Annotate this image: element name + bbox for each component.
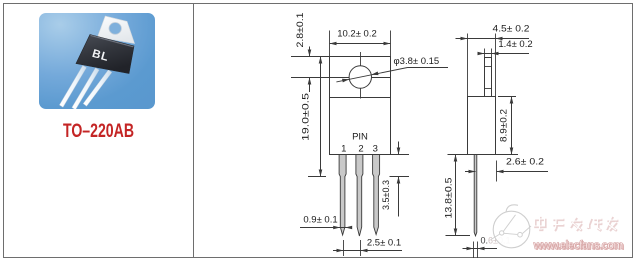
svg-text:0.9± 0.1: 0.9± 0.1 [303, 215, 337, 226]
2.6 dimension line right [497, 171, 549, 173]
13.8 bottom stub [446, 235, 471, 237]
dim text 19.0 [301, 93, 312, 141]
dim text 2.8 [295, 13, 306, 48]
tab hole bottom edge [485, 88, 492, 90]
watermark logo slash line [503, 215, 516, 232]
package photo icon (blue tile) [39, 13, 155, 109]
body bottom right stub [391, 154, 410, 156]
svg-text:3.5±0.3: 3.5±0.3 [381, 180, 391, 210]
svg-text:4.5± 0.2: 4.5± 0.2 [493, 24, 530, 35]
2.5 dimension line [333, 250, 402, 252]
watermark CJK characters (stylized) [535, 216, 619, 231]
2.6 dimension line left [465, 171, 476, 173]
svg-text:PIN: PIN [352, 132, 368, 143]
watermark url text [533, 240, 625, 253]
front leg 1 [339, 155, 346, 236]
hole diameter leader line [336, 68, 407, 82]
svg-text:1.4± 0.2: 1.4± 0.2 [498, 39, 532, 50]
watermark logo short line [523, 226, 532, 234]
svg-text:3: 3 [373, 144, 378, 155]
tab/body boundary line [330, 97, 391, 99]
2.5 arrows [337, 249, 344, 253]
1.4 arrows [478, 52, 485, 56]
leg shoulder stub [390, 176, 410, 178]
BL marking [91, 48, 111, 64]
2.8 arrows [308, 50, 312, 57]
0.9 dimension line [300, 227, 352, 229]
transistor leg 3 [83, 70, 112, 106]
2.6 extension line [496, 161, 498, 182]
19.0 arrows [319, 57, 323, 64]
8.9 top stub [498, 96, 516, 98]
2.5 extension lines [343, 240, 345, 256]
watermark logo circle [491, 205, 531, 248]
transistor metal tab [98, 16, 135, 43]
front view package outline [330, 57, 391, 155]
19.0 dimension line [320, 57, 322, 177]
3.5 arrows [397, 148, 401, 155]
transistor leg 1 [59, 65, 86, 107]
transistor leg 2 [72, 68, 99, 110]
0.6 arrows [467, 247, 474, 251]
3.5 upper arrow line [398, 142, 400, 155]
top edge left stub [291, 56, 330, 58]
0.9 arrows [333, 226, 340, 230]
dim text 8.9 [498, 109, 508, 142]
svg-text:13.8±0.5: 13.8±0.5 [444, 178, 454, 219]
13.8 arrows [454, 155, 458, 162]
svg-text:TO–220AB: TO–220AB [63, 120, 134, 142]
0.6 extension lines [473, 242, 475, 259]
svg-text:www.elecfans.com: www.elecfans.com [533, 240, 624, 252]
tab hole top edge [485, 66, 492, 68]
watermark logo tail [506, 205, 518, 213]
3.5 lower dimension line [398, 177, 400, 217]
front leg 2 [356, 155, 363, 237]
mounting hole [349, 66, 371, 88]
side view tab edge extensions [484, 49, 486, 58]
13.8 dimension line [455, 155, 457, 236]
tab mounting hole [109, 23, 121, 35]
2.8 dimension lines [309, 47, 311, 57]
0.6 dimension line [463, 248, 498, 250]
transistor body [76, 35, 134, 74]
svg-text:2.8±0.1: 2.8±0.1 [295, 13, 306, 48]
8.9 dimension line [511, 97, 513, 155]
side view front face extension [467, 34, 469, 97]
19.0 bottom stub [308, 176, 326, 178]
side view leg [474, 155, 477, 236]
8.9 arrows [510, 97, 514, 104]
side view tab [485, 58, 492, 97]
hole horizontal centerline [291, 77, 390, 79]
svg-text:8.9±0.2: 8.9±0.2 [498, 109, 508, 142]
panel divider [193, 3, 194, 258]
10.2 arrows [330, 42, 337, 46]
hole diameter arrows [342, 79, 349, 83]
body bevel highlight [91, 35, 134, 46]
dim text 13.8 [444, 178, 454, 219]
svg-text:10.2± 0.2: 10.2± 0.2 [337, 29, 377, 40]
hole vertical centerline [360, 52, 362, 99]
body bottom left stub [448, 154, 468, 156]
2.6 arrows [469, 170, 476, 174]
watermark logo dot B [518, 232, 523, 237]
dim text 3.5 [381, 180, 391, 210]
4.5 dimension line [456, 38, 530, 40]
svg-text:φ3.8± 0.15: φ3.8± 0.15 [394, 56, 440, 67]
watermark logo dot A [500, 231, 504, 235]
svg-text:2.6± 0.2: 2.6± 0.2 [506, 157, 544, 168]
svg-text:1: 1 [341, 144, 346, 155]
1.4 dimension line [479, 53, 530, 55]
svg-text:2: 2 [358, 144, 363, 155]
10.2 extension lines [329, 31, 331, 57]
8.9 bottom stub [496, 154, 519, 156]
4.5 arrows [461, 37, 468, 41]
svg-text:19.0±0.5: 19.0±0.5 [301, 93, 312, 141]
side view tab back extension [495, 34, 497, 97]
svg-text:2.5± 0.1: 2.5± 0.1 [367, 238, 401, 249]
front leg 3 [373, 155, 380, 235]
side view body [468, 97, 496, 155]
10.2 dimension line [330, 43, 391, 45]
